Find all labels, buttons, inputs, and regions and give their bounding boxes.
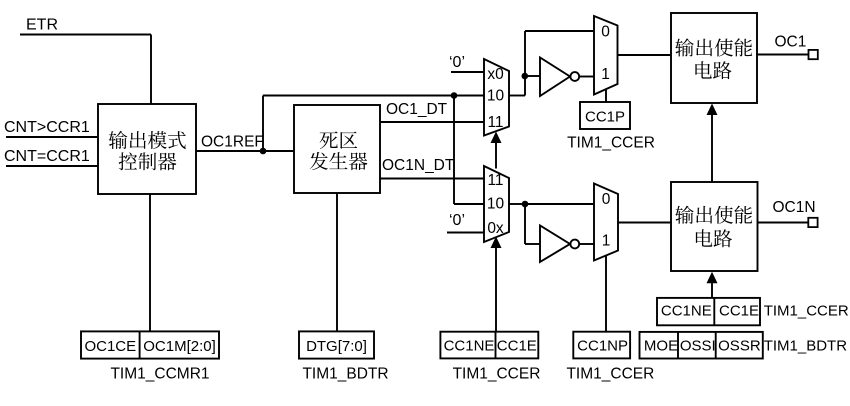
svg-text:‘0’: ‘0’ [449, 212, 465, 229]
wire CNT>CCR1 into U1 [6, 136, 98, 138]
arrowhead into U3 [707, 104, 718, 116]
mux MUX2 [484, 166, 509, 242]
U4 label line2 电路 [696, 229, 732, 247]
svg-text:TIM1_CCER: TIM1_CCER [566, 365, 654, 382]
divider CC1NE|CC1E lower [495, 332, 497, 359]
junction MUX1 output [522, 73, 529, 80]
svg-text:MOE: MOE [644, 337, 678, 354]
wire OC1REF branch up [262, 96, 264, 152]
register box MOE/OSSI/OSSR [640, 332, 763, 359]
wire to MUX3 input 0 [525, 30, 594, 32]
svg-text:CC1NE: CC1NE [661, 303, 712, 320]
svg-text:CC1E: CC1E [719, 303, 759, 320]
svg-text:TIM1_CCER: TIM1_CCER [567, 135, 655, 152]
wire CNT=CCR1 into U1 [6, 165, 98, 167]
wire '0' into MUX1 input x0 [451, 71, 484, 73]
svg-text:CNT=CCR1: CNT=CCR1 [4, 148, 90, 165]
wire U1 bottom to OC1CE/OC1M register box [149, 194, 151, 331]
svg-text:TIM1_CCER: TIM1_CCER [453, 365, 541, 382]
svg-text:OC1M[2:0]: OC1M[2:0] [143, 338, 216, 355]
svg-text:x0: x0 [487, 66, 504, 83]
arrowhead MUX1 select [491, 132, 502, 144]
mux MUX1 [484, 59, 509, 136]
wire U4 top to U3 enable [711, 114, 713, 182]
divider OSSI|OSSR [715, 332, 717, 359]
U1 label line1 输出模式 [109, 131, 186, 149]
wire ETR horizontal [20, 34, 151, 36]
svg-text:11: 11 [487, 114, 503, 131]
arrowhead MUX2 select [491, 237, 502, 249]
svg-text:CC1P: CC1P [585, 109, 625, 126]
U3 label line1 输出使能 [675, 38, 752, 56]
wire MUX1 output [509, 95, 525, 97]
wire to inverter B input [525, 243, 540, 245]
wire MUX1 select from MUX2 top [495, 142, 497, 169]
wire inverter B to MUX4 input 1 [579, 243, 594, 245]
svg-text:OC1N: OC1N [773, 199, 816, 216]
U4 label line1 输出使能 [675, 206, 752, 224]
svg-text:TIM1_CCMR1: TIM1_CCMR1 [110, 365, 209, 382]
wire to inverter A input [525, 75, 540, 77]
wire MUX3 output to U3 [618, 54, 672, 56]
wire MUX4 output to U4 [618, 222, 671, 224]
block U4 output enable circuit [671, 182, 758, 271]
wire ETR vertical into U1 top [150, 35, 152, 105]
wire OC1N_DT to MUX2 input 11 [380, 178, 484, 180]
wire CC1NE/CC1E to U4 enable [711, 283, 713, 298]
svg-text:TIM1_BDTR: TIM1_BDTR [764, 337, 848, 354]
inverter A bubble [570, 72, 579, 81]
svg-text:OC1CE: OC1CE [84, 338, 136, 355]
register box CC1NE/CC1E lower [440, 332, 538, 359]
register box OC1CE/OC1M [81, 331, 219, 358]
inverter B triangle [540, 226, 570, 263]
svg-text:ETR: ETR [26, 17, 58, 34]
divider MOE|OSSI [677, 332, 679, 359]
wire OC1REF vertical to MUX2 input 10 [453, 96, 455, 205]
svg-text:TIM1_CCER: TIM1_CCER [764, 303, 849, 320]
svg-text:CC1NP: CC1NP [577, 338, 628, 355]
U3 label line2 电路 [695, 61, 731, 79]
pad OC1N output pin [808, 218, 817, 227]
svg-text:CC1NE: CC1NE [444, 338, 495, 355]
svg-text:OC1: OC1 [775, 34, 807, 51]
wire MUX1 output up [524, 31, 526, 96]
U1 label line2 控制器 [119, 152, 177, 170]
wire inverter A to MUX3 input 1 [579, 76, 594, 78]
wire MUX4 select from CC1NP [605, 256, 607, 333]
wire MUX3 select from CC1P [605, 90, 607, 102]
inverter A triangle [540, 58, 570, 97]
mux MUX3 polarity [594, 16, 618, 95]
register box CC1NE/CC1E upper [657, 298, 760, 325]
svg-text:10: 10 [487, 88, 505, 105]
svg-text:OC1N_DT: OC1N_DT [382, 157, 455, 174]
block U1 output mode controller [98, 104, 196, 194]
wire OC1REF into MUX2 input 10 [454, 203, 484, 205]
svg-text:0: 0 [601, 24, 610, 41]
wire MUX2 output [509, 203, 525, 205]
svg-text:1: 1 [602, 233, 611, 250]
register box CC1NP [573, 332, 630, 359]
svg-text:DTG[7:0]: DTG[7:0] [306, 338, 367, 355]
wire '0' into MUX2 input 0x [447, 232, 484, 234]
block U2 dead-time generator [294, 105, 380, 193]
junction OC1REF [260, 148, 267, 155]
svg-text:1: 1 [601, 66, 610, 83]
U2 label line2 发生器 [310, 152, 368, 170]
register box DTG [299, 331, 374, 358]
svg-text:OSSR: OSSR [718, 337, 761, 354]
svg-text:11: 11 [487, 172, 503, 189]
junction MUX2 output [522, 201, 529, 208]
junction OC1REF top [451, 92, 458, 99]
svg-text:‘0’: ‘0’ [449, 54, 465, 71]
svg-text:OC1REF: OC1REF [201, 133, 264, 150]
svg-text:OC1_DT: OC1_DT [386, 101, 448, 118]
divider CC1NE|CC1E upper [713, 298, 715, 325]
register box CC1P [580, 102, 630, 129]
svg-text:0x: 0x [487, 220, 504, 237]
block U3 output enable circuit [671, 13, 757, 103]
wire U2 bottom to DTG register box [336, 193, 338, 331]
divider OC1CE|OC1M [139, 331, 141, 358]
svg-text:10: 10 [487, 196, 505, 213]
arrowhead into U4 [707, 272, 718, 284]
svg-text:CNT>CCR1: CNT>CCR1 [4, 119, 90, 136]
U2 label line1 死区 [320, 131, 358, 149]
inverter B bubble [570, 240, 579, 249]
mux MUX4 polarity [594, 184, 618, 261]
svg-text:TIM1_BDTR: TIM1_BDTR [302, 365, 388, 382]
svg-text:OSSI: OSSI [680, 337, 716, 354]
svg-text:0: 0 [602, 191, 611, 208]
svg-text:CC1E: CC1E [497, 338, 537, 355]
wire OC1REF to MUX1 input 10 [263, 95, 484, 97]
wire OC1REF U1 to U2 [196, 150, 294, 152]
wire MUX2 select from CC1NE/CC1E [495, 247, 497, 332]
wire to MUX4 input 0 [525, 203, 594, 205]
pad OC1 output pin [809, 50, 818, 59]
wire MUX2 output down [524, 204, 526, 244]
wire OC1 output [757, 54, 809, 56]
wire OC1N output [758, 222, 809, 224]
wire OC1_DT to MUX1 input 11 [380, 121, 484, 123]
